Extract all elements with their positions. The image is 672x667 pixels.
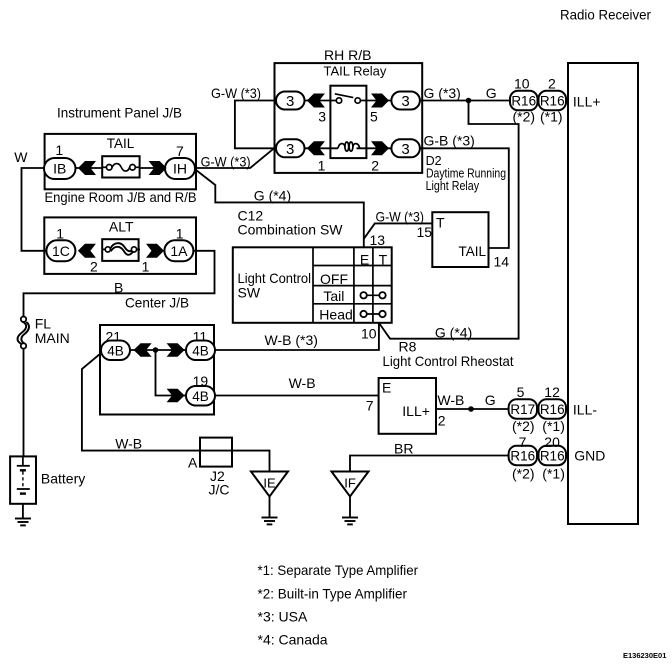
svg-text:10: 10 <box>361 326 377 342</box>
svg-text:G-W (*3): G-W (*3) <box>376 209 425 225</box>
svg-text:R16: R16 <box>540 402 565 417</box>
wire TAIL fuse to IH <box>140 167 166 169</box>
svg-text:10: 10 <box>514 76 530 92</box>
junction dot G (*3) <box>466 98 472 104</box>
svg-text:5: 5 <box>517 384 525 400</box>
svg-text:1: 1 <box>56 226 64 242</box>
RH R/B box <box>275 63 423 173</box>
amplifier IF triangle <box>332 472 369 497</box>
wire G-W (*3) loop from relay contact to relay coil <box>235 101 276 149</box>
svg-text:IE: IE <box>263 476 276 491</box>
svg-text:W-B: W-B <box>115 436 142 452</box>
svg-text:TAIL Relay: TAIL Relay <box>324 64 387 79</box>
svg-text:SW: SW <box>238 285 261 301</box>
svg-text:Light Control Rheostat: Light Control Rheostat <box>383 353 514 369</box>
wire BR from IF to R16 connector <box>350 456 509 473</box>
svg-text:E136230E01: E136230E01 <box>623 651 666 660</box>
svg-text:J/C: J/C <box>209 482 230 498</box>
svg-text:IH: IH <box>173 161 187 177</box>
svg-text:Combination SW: Combination SW <box>238 222 344 238</box>
wire relay contact to left oval <box>305 100 337 102</box>
amplifier IE triangle <box>251 472 288 497</box>
wire IF ground stem <box>349 496 351 518</box>
fusible link ALT <box>102 239 140 261</box>
svg-text:W-B (*3): W-B (*3) <box>265 332 318 348</box>
svg-text:3: 3 <box>401 93 409 110</box>
svg-text:12: 12 <box>544 384 560 400</box>
svg-text:Radio Receiver: Radio Receiver <box>560 7 651 23</box>
wire 4B pin 21 down to W-B run <box>82 354 270 473</box>
wire IE ground stem <box>269 496 271 518</box>
SECTION: boxes <box>44 63 638 524</box>
svg-text:ALT: ALT <box>109 219 134 235</box>
junction block 4B box <box>100 325 214 415</box>
junction block 4B connector 19 <box>186 386 215 406</box>
svg-text:Center J/B: Center J/B <box>125 295 189 311</box>
svg-text:B: B <box>114 280 123 296</box>
wire B from 1A around to FL MAIN <box>24 251 215 317</box>
connector R16 pin 12 <box>539 399 567 419</box>
svg-text:*3: USA: *3: USA <box>258 609 308 625</box>
arrow at 4B 11 <box>167 343 185 356</box>
svg-text:Tail: Tail <box>323 288 344 304</box>
svg-text:3: 3 <box>286 93 294 110</box>
arrow relay coil right <box>371 141 389 155</box>
wire relay coil to right oval <box>357 147 392 149</box>
svg-text:3: 3 <box>318 109 326 125</box>
junction dot in 4B block <box>153 347 159 353</box>
svg-text:TAIL: TAIL <box>459 244 487 259</box>
wire 4B pin 21 to pin 11 <box>130 349 186 351</box>
svg-text:*1: Separate Type Amplifier: *1: Separate Type Amplifier <box>258 562 419 578</box>
svg-text:BR: BR <box>394 441 413 457</box>
ground IE <box>262 518 278 525</box>
svg-text:1: 1 <box>176 226 184 242</box>
SECTION: wires <box>22 101 519 519</box>
svg-text:13: 13 <box>370 232 386 248</box>
wire relay coil to left oval <box>305 147 339 149</box>
svg-text:Head: Head <box>319 307 352 323</box>
relay TAIL inner box <box>330 86 366 158</box>
switch contact Head row <box>360 311 385 317</box>
svg-text:2: 2 <box>371 158 379 174</box>
wire G-B (*3) from relay coil to TAIL block pin 14 <box>420 148 509 248</box>
junction block 4B connector 11 <box>186 341 215 361</box>
svg-text:ILL-: ILL- <box>573 402 597 418</box>
svg-text:7: 7 <box>176 143 184 159</box>
svg-text:(*2): (*2) <box>512 418 535 434</box>
ground battery <box>15 519 31 526</box>
connector oval 3 relay contact left <box>276 92 305 111</box>
svg-text:R16: R16 <box>510 449 535 464</box>
wire relay contact to right oval <box>360 100 391 102</box>
svg-text:W-B: W-B <box>437 392 464 408</box>
svg-text:G-W (*3): G-W (*3) <box>211 85 261 101</box>
connector R16 pin 7 <box>509 446 537 466</box>
svg-text:19: 19 <box>193 373 209 389</box>
wire W-B from 4B pin 19 to rheostat pin 7 <box>213 395 379 397</box>
arrow at IH <box>149 161 167 175</box>
radio receiver box <box>568 63 638 524</box>
svg-text:G-B (*3): G-B (*3) <box>424 133 475 149</box>
instrument panel J/B box <box>45 134 196 189</box>
splice dot W-B G <box>468 406 474 412</box>
wire G (*4) branch from junction down right side <box>379 101 519 339</box>
arrow at 1C <box>78 244 96 258</box>
svg-text:OFF: OFF <box>320 271 348 287</box>
svg-text:G: G <box>486 85 497 101</box>
svg-text:20: 20 <box>544 434 560 450</box>
svg-text:3: 3 <box>401 141 409 158</box>
wire G-W (*3) from IH to relay coil <box>194 148 274 168</box>
connector R16 pin 10 <box>510 91 538 111</box>
svg-text:E: E <box>360 252 369 268</box>
connector 1A <box>164 240 193 261</box>
svg-text:(*2): (*2) <box>513 109 536 125</box>
junction connector J2 box <box>200 438 232 467</box>
connector IB <box>44 158 76 179</box>
wire W-B (*3) from combination switch pin 10 to 4B pin 11 <box>213 323 379 350</box>
svg-text:Light Relay: Light Relay <box>426 179 480 193</box>
connector oval 3 relay coil left <box>276 139 305 158</box>
svg-text:Battery: Battery <box>41 471 85 487</box>
connector R16 pin 2 <box>539 91 567 111</box>
svg-text:1: 1 <box>142 259 150 275</box>
arrow at IB <box>78 161 96 175</box>
svg-text:T: T <box>379 252 388 268</box>
SECTION: labels <box>14 76 605 498</box>
svg-text:4B: 4B <box>107 344 124 359</box>
wire battery to ground <box>22 494 24 519</box>
svg-text:2: 2 <box>548 76 556 92</box>
junction block 4B connector 21 <box>101 341 130 361</box>
svg-text:R16: R16 <box>540 94 565 109</box>
switch contact Tail row <box>360 292 385 298</box>
svg-text:G: G <box>485 392 496 408</box>
svg-text:R16: R16 <box>511 94 536 109</box>
svg-text:GND: GND <box>574 448 605 464</box>
svg-text:(*2): (*2) <box>512 466 535 482</box>
svg-text:*2: Built-in Type Amplifier: *2: Built-in Type Amplifier <box>258 586 408 602</box>
light control rheostat ILL+ box <box>379 378 436 434</box>
svg-text:21: 21 <box>106 329 122 345</box>
connector R16 pin 20 <box>539 446 567 466</box>
svg-text:R16: R16 <box>540 449 565 464</box>
wire FL MAIN to battery <box>23 348 25 466</box>
svg-text:1: 1 <box>55 142 63 158</box>
svg-text:T: T <box>436 215 445 231</box>
wire 4B junction down to pin 19 <box>156 350 187 396</box>
connector IH <box>165 158 195 179</box>
ground IF <box>342 518 358 525</box>
svg-text:G (*4): G (*4) <box>254 188 291 204</box>
fuse TAIL <box>102 156 139 177</box>
svg-text:(*1): (*1) <box>540 109 563 125</box>
arrow relay contact left <box>307 94 325 108</box>
arrow at 1A <box>146 244 164 258</box>
wire W-B G from rheostat pin 2 to R17 connector <box>436 408 509 410</box>
svg-text:4B: 4B <box>192 389 209 404</box>
battery <box>10 456 36 503</box>
svg-text:RH R/B: RH R/B <box>324 47 371 63</box>
arrow at 4B 21 <box>134 343 152 356</box>
connector R17 pin 5 <box>509 399 537 419</box>
svg-text:2: 2 <box>438 413 446 429</box>
connector oval 3 relay coil right <box>391 139 420 158</box>
svg-text:A: A <box>188 455 198 471</box>
wire G (*4) from IH to combination switch pin 13 <box>196 170 364 247</box>
svg-text:14: 14 <box>494 254 510 270</box>
wire G (*3) to R16 connector <box>420 100 510 102</box>
svg-text:2: 2 <box>90 259 98 275</box>
relay contact switch <box>335 94 361 103</box>
svg-text:IB: IB <box>53 161 66 177</box>
svg-text:ILL+: ILL+ <box>402 403 430 419</box>
svg-text:W-B: W-B <box>289 375 316 391</box>
center J/B box <box>44 217 196 274</box>
wire IB to TAIL fuse <box>76 167 103 169</box>
svg-text:(*1): (*1) <box>542 466 565 482</box>
svg-text:MAIN: MAIN <box>35 330 70 346</box>
svg-text:3: 3 <box>286 141 294 158</box>
svg-text:4B: 4B <box>192 344 209 359</box>
wire W from IB to 1C left side <box>22 168 47 251</box>
combination switch table dividers <box>313 247 392 322</box>
wire G-W (*3) branch to TAIL block pin 15 <box>364 223 433 238</box>
svg-text:G (*4): G (*4) <box>435 325 472 341</box>
svg-text:11: 11 <box>193 329 208 345</box>
svg-text:1C: 1C <box>52 243 70 259</box>
svg-text:R17: R17 <box>510 402 535 417</box>
svg-text:15: 15 <box>417 224 433 240</box>
svg-text:ILL+: ILL+ <box>573 94 601 110</box>
svg-text:5: 5 <box>370 109 378 125</box>
arrow at 4B 19 <box>167 389 185 402</box>
connector 1C <box>46 240 75 261</box>
arrow relay coil left <box>307 141 325 155</box>
connector oval 3 relay contact right <box>391 92 420 111</box>
arrow relay contact right <box>371 94 389 108</box>
svg-text:E: E <box>382 380 391 396</box>
svg-text:7: 7 <box>366 398 374 414</box>
svg-text:1: 1 <box>318 158 326 174</box>
taillight relay block T box <box>432 212 488 267</box>
svg-text:W: W <box>14 149 28 165</box>
svg-text:Instrument Panel J/B: Instrument Panel J/B <box>57 105 182 121</box>
svg-text:IF: IF <box>344 476 356 491</box>
svg-text:G (*3): G (*3) <box>424 85 461 101</box>
combination switch table outer box <box>233 247 392 322</box>
fusible link FL MAIN <box>18 317 29 349</box>
svg-text:*4: Canada: *4: Canada <box>258 632 328 648</box>
svg-text:1A: 1A <box>170 243 188 259</box>
SECTION: components <box>10 91 566 526</box>
svg-text:Engine Room J/B and R/B: Engine Room J/B and R/B <box>45 189 197 205</box>
svg-text:7: 7 <box>519 434 527 450</box>
svg-text:G-W (*3): G-W (*3) <box>201 154 251 170</box>
relay coil <box>338 142 360 151</box>
svg-text:TAIL: TAIL <box>107 136 135 151</box>
svg-text:(*1): (*1) <box>542 418 565 434</box>
